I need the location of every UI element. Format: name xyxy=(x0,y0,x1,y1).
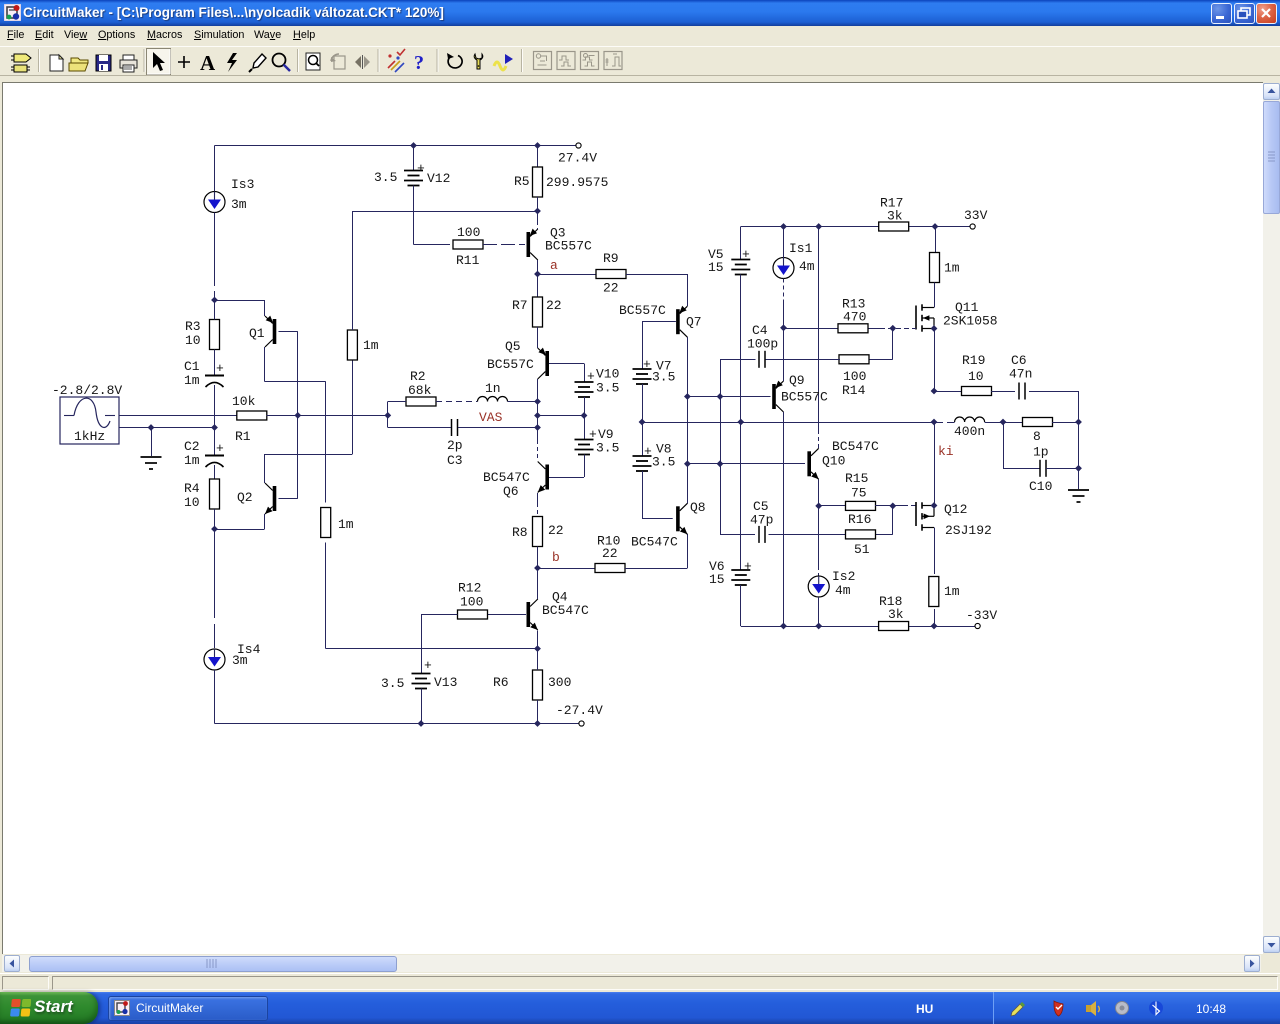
svg-text:3m: 3m xyxy=(231,197,247,212)
svg-text:R15: R15 xyxy=(845,471,868,486)
menu bar xyxy=(0,26,1280,46)
wire C5 riser xyxy=(720,397,722,535)
wire Q11 source down xyxy=(934,329,936,392)
svg-text:1m: 1m xyxy=(944,261,960,276)
resistor R1 xyxy=(237,411,267,420)
svg-text:+: + xyxy=(643,357,651,372)
wire Q1 base xyxy=(279,331,298,333)
wire V9 to Q6 base xyxy=(584,455,586,478)
capacitor C2 xyxy=(205,455,224,457)
toolbar icon: waveforms run xyxy=(494,54,513,70)
wire R15 right xyxy=(875,505,893,507)
current source Is4 xyxy=(204,649,225,670)
capacitor C3 xyxy=(451,419,453,436)
toolbar icon: zoom xyxy=(273,54,291,72)
wire C3 left xyxy=(387,415,389,427)
node Is3/R3/Q1 junction xyxy=(211,297,218,304)
resistor R15 xyxy=(846,501,876,510)
wire 1m to V12- rail xyxy=(352,211,354,330)
wire V6 to bottom rail xyxy=(740,585,742,626)
wire Q2 collector xyxy=(264,454,266,483)
wire R7 to Q5 emitter xyxy=(537,327,539,348)
svg-text:22: 22 xyxy=(603,281,619,296)
svg-text:R8: R8 xyxy=(512,525,528,540)
node Q4 emitter/R6 xyxy=(534,645,541,652)
resistor R7 xyxy=(537,274,539,297)
svg-text:10: 10 xyxy=(185,333,201,348)
taskbar xyxy=(0,992,1280,1024)
toolbar icon: save floppy xyxy=(96,55,111,71)
wire source to ground net xyxy=(119,427,215,429)
svg-text:1m: 1m xyxy=(363,338,379,353)
wire gate Q12 xyxy=(893,505,903,507)
svg-text:BC557C: BC557C xyxy=(781,390,828,405)
transistor Q6 xyxy=(545,465,549,490)
wire V10 to VAS node xyxy=(584,397,586,416)
wire 1m to Q4 emitter line xyxy=(325,543,327,649)
wire R2 to inductor xyxy=(436,401,478,403)
horizontal scrollbar xyxy=(2,955,1261,972)
svg-text:15: 15 xyxy=(709,572,725,587)
svg-text:BC547C: BC547C xyxy=(542,603,589,618)
svg-text:R12: R12 xyxy=(458,581,481,596)
svg-text:47n: 47n xyxy=(1009,367,1032,382)
wire Q4 emitter xyxy=(537,631,539,649)
wire C1 to C2 node xyxy=(214,385,216,455)
svg-text:22: 22 xyxy=(548,523,564,538)
svg-text:75: 75 xyxy=(851,486,867,501)
battery V10 xyxy=(575,381,594,383)
node R6 bottom xyxy=(534,720,541,727)
svg-text:C1: C1 xyxy=(184,359,200,374)
wire Q12 drain to 1m xyxy=(934,528,936,575)
capacitor C5 xyxy=(758,526,760,543)
svg-text:-33V: -33V xyxy=(966,608,997,623)
minimize button xyxy=(1211,3,1232,24)
terminal -33V xyxy=(975,623,980,628)
toolbar icon: probe tool yellow xyxy=(474,54,483,69)
node R5 top xyxy=(534,142,541,149)
wire Q10 collector xyxy=(818,227,820,431)
wire C4 to R14 xyxy=(766,359,841,361)
svg-text:R19: R19 xyxy=(962,353,985,368)
svg-text:C2: C2 xyxy=(184,439,200,454)
wire C3 right xyxy=(458,427,538,429)
wire bottom left rail xyxy=(214,670,216,724)
terminal 27.4V xyxy=(576,143,581,148)
svg-text:100: 100 xyxy=(457,225,480,240)
wire inductor to node xyxy=(508,401,538,403)
window title text xyxy=(23,5,444,20)
svg-text:10: 10 xyxy=(968,369,984,384)
svg-text:V10: V10 xyxy=(596,367,619,382)
battery V12 xyxy=(413,146,415,171)
ground symbol xyxy=(141,456,162,458)
svg-text:Q9: Q9 xyxy=(789,373,805,388)
svg-text:3.5: 3.5 xyxy=(381,676,404,691)
svg-text:+: + xyxy=(744,559,752,574)
toolbar icon: lightning xyxy=(227,53,237,72)
wire Q3 collector to node a xyxy=(537,260,539,274)
wire Q10 base line xyxy=(687,463,805,465)
current source Is2 xyxy=(808,576,829,597)
wire 1m to rail xyxy=(934,609,936,626)
svg-text:R4: R4 xyxy=(184,481,200,496)
svg-text:1n: 1n xyxy=(485,381,501,396)
wire +33V rail xyxy=(741,226,970,228)
wire R8 to node b xyxy=(537,547,539,569)
svg-text:R5: R5 xyxy=(514,174,530,189)
wire R12 to V13 xyxy=(421,614,458,616)
wire Q1 emitter xyxy=(215,300,265,302)
app icon xyxy=(4,4,21,21)
svg-text:1m: 1m xyxy=(184,453,200,468)
wire Q2 base xyxy=(279,498,298,500)
wire 8 ohm right xyxy=(1052,422,1079,424)
node V6 top xyxy=(737,419,744,426)
resistor 8 ohm load xyxy=(1023,418,1053,427)
toolbar icon: autoroute colored xyxy=(388,49,405,72)
svg-text:Q10: Q10 xyxy=(822,454,845,469)
svg-text:3k: 3k xyxy=(888,607,904,622)
resistor R3 xyxy=(210,320,220,350)
transistor Q9 xyxy=(772,384,776,409)
svg-text:22: 22 xyxy=(546,298,562,313)
wire Q10 emitter xyxy=(818,480,820,506)
svg-text:2SK1058: 2SK1058 xyxy=(943,314,998,329)
wire R15 left xyxy=(819,505,846,507)
vertical scrollbar xyxy=(1263,83,1280,953)
transistor Q4 xyxy=(527,602,531,627)
restore button xyxy=(1234,3,1255,24)
wire R10 to Q8 emitter xyxy=(625,568,687,570)
close button xyxy=(1256,3,1277,24)
wire Is3 to node xyxy=(214,213,216,287)
svg-text:BC547C: BC547C xyxy=(832,439,879,454)
node C4 riser/Q9 base xyxy=(717,393,724,400)
wire Is2 to rail xyxy=(818,597,820,626)
svg-text:R9: R9 xyxy=(603,251,619,266)
svg-text:b: b xyxy=(552,550,560,565)
svg-text:-27.4V: -27.4V xyxy=(556,703,603,718)
transistor Q1 xyxy=(273,319,277,344)
wire C10 right xyxy=(1046,468,1079,470)
svg-text:3k: 3k xyxy=(887,209,903,224)
wire 1m drain resistor top xyxy=(935,227,937,253)
svg-text:22: 22 xyxy=(602,546,618,561)
toolbar xyxy=(0,46,1280,75)
wire C4 left riser xyxy=(720,359,756,361)
svg-text:100: 100 xyxy=(460,595,483,610)
wire R5 to rail node xyxy=(537,197,539,211)
ground symbol right xyxy=(1068,489,1089,491)
wire Q7 collector xyxy=(687,337,689,504)
wire V8 to Q8 base xyxy=(642,471,644,519)
capacitor C6 xyxy=(1018,383,1020,400)
battery V9 xyxy=(584,416,586,440)
svg-text:+: + xyxy=(742,247,750,262)
wire ki column xyxy=(934,422,936,506)
node Q10 collector top xyxy=(815,223,822,230)
resistor 1m (Q1 collector load) xyxy=(321,508,331,538)
node Q10 base/C5 riser xyxy=(717,460,724,467)
wire V5 to 422 rail xyxy=(740,275,742,423)
terminal 33V xyxy=(970,224,975,229)
svg-text:a: a xyxy=(550,258,558,273)
node R15/R16/gate Q12 xyxy=(889,503,896,510)
wire R6 to rail xyxy=(537,649,539,670)
node Q11 source xyxy=(931,325,938,332)
node output corner xyxy=(1075,419,1082,426)
toolbar pressed arrow-tool button xyxy=(147,49,171,75)
svg-text:4m: 4m xyxy=(835,583,851,598)
wire Is4 top xyxy=(214,529,216,618)
node ki rail xyxy=(931,419,938,426)
svg-text:-2.8/2.8V: -2.8/2.8V xyxy=(52,383,122,398)
svg-text:BC547C: BC547C xyxy=(631,535,678,550)
wire R3 to C1 xyxy=(214,300,216,320)
wire Q4 base to R12 xyxy=(488,614,527,616)
svg-text:Is2: Is2 xyxy=(832,569,855,584)
node 1n/Q5 collector xyxy=(534,398,541,405)
svg-text:BC557C: BC557C xyxy=(487,357,534,372)
node ground tee xyxy=(148,424,155,431)
wire R9 to Q7 xyxy=(626,274,687,276)
transistor Q8 xyxy=(676,506,680,531)
svg-text:Q6: Q6 xyxy=(503,484,519,499)
wire Is1 stubs xyxy=(783,227,785,258)
svg-text:R7: R7 xyxy=(512,298,528,313)
node C3/Q6 xyxy=(534,424,541,431)
resistor R13 xyxy=(838,324,868,333)
node R13/R14/gate xyxy=(889,325,896,332)
node V7/V8 xyxy=(639,419,646,426)
node Is1/R13 xyxy=(780,324,787,331)
node Is2 rail xyxy=(815,623,822,630)
svg-text:10k: 10k xyxy=(232,394,256,409)
svg-text:ki: ki xyxy=(938,444,954,459)
svg-text:R6: R6 xyxy=(493,675,509,690)
resistor R12 xyxy=(458,610,488,619)
svg-text:15: 15 xyxy=(708,260,724,275)
wire V12 to R11 xyxy=(413,186,415,245)
wire Q5 collector xyxy=(537,379,539,402)
svg-text:Q7: Q7 xyxy=(686,315,702,330)
wire Q9 base line xyxy=(687,396,770,398)
svg-text:27.4V: 27.4V xyxy=(558,151,597,166)
wire Q5 base to V10 xyxy=(549,363,584,365)
wire R19 to C6 xyxy=(991,391,1015,393)
wire Is2 stubs xyxy=(818,506,820,566)
svg-text:100: 100 xyxy=(843,369,866,384)
svg-text:Q12: Q12 xyxy=(944,502,967,517)
svg-text:Q2: Q2 xyxy=(237,490,253,505)
wire Q7 base to V7 xyxy=(642,321,676,323)
transistor Q5 xyxy=(545,351,549,376)
resistor 1m (Q2 collector load) xyxy=(347,330,357,360)
resistor 1m (Q12 drain) xyxy=(929,577,939,607)
svg-text:V13: V13 xyxy=(434,675,457,690)
svg-text:R14: R14 xyxy=(842,383,866,398)
wire R13 line to gate xyxy=(784,328,839,330)
wire R16 right riser xyxy=(892,506,894,535)
toolbar icon: find part xyxy=(306,53,320,70)
wire R4 to node xyxy=(214,509,216,529)
svg-text:1kHz: 1kHz xyxy=(74,429,105,444)
wire -33V rail xyxy=(741,626,879,628)
svg-text:3.5: 3.5 xyxy=(596,441,619,456)
resistor R14 xyxy=(839,355,869,364)
node Q10 base/Q7Q8 collectors xyxy=(684,460,691,467)
terminal -27.4V xyxy=(579,721,584,726)
resistor 1m (Q11 drain) xyxy=(930,253,940,283)
wire top +27.4V rail xyxy=(215,145,578,147)
inductor 1n xyxy=(478,397,508,402)
wire 400n right xyxy=(985,422,1023,424)
battery V8 xyxy=(642,422,644,456)
wire mid 422 rail xyxy=(642,422,934,424)
wire node b to R10 xyxy=(538,568,596,570)
toolbar icon: rotate page (disabled) xyxy=(331,54,345,69)
transistor Q2 xyxy=(273,486,277,511)
resistor R11 xyxy=(453,240,483,249)
svg-text:Q1: Q1 xyxy=(249,326,265,341)
svg-text:VAS: VAS xyxy=(479,410,503,425)
svg-text:R1: R1 xyxy=(235,429,251,444)
wire V13 to bottom rail xyxy=(421,689,423,724)
svg-text:+: + xyxy=(216,361,224,376)
wire R11 to Q3 base xyxy=(483,244,525,246)
resistor R17 xyxy=(879,222,909,231)
toolbar icon: probe xyxy=(249,54,266,72)
wire Q3 emitter xyxy=(537,211,539,222)
start button xyxy=(0,992,98,1024)
svg-text:R11: R11 xyxy=(456,253,480,268)
toolbar icon: open folder xyxy=(69,58,88,71)
svg-text:C10: C10 xyxy=(1029,479,1052,494)
wire Q1 collector xyxy=(264,347,266,382)
current source Is3 xyxy=(204,192,225,213)
svg-text:R3: R3 xyxy=(185,319,201,334)
svg-text:1m: 1m xyxy=(184,373,200,388)
node a xyxy=(534,271,541,278)
node b xyxy=(534,565,541,572)
capacitor C1 xyxy=(205,375,224,377)
battery V13 xyxy=(412,673,431,675)
toolbar bottom divider xyxy=(0,75,1280,82)
node C10 left tee xyxy=(1000,419,1007,426)
node Q12 source xyxy=(931,502,938,509)
node R2/C3 tee xyxy=(384,412,391,419)
wire Q6 emitter to R8 xyxy=(537,493,539,503)
source V1 signal generator xyxy=(60,397,119,444)
svg-text:33V: 33V xyxy=(964,208,988,223)
wire ki node to 400n xyxy=(934,422,955,424)
svg-text:+: + xyxy=(424,658,432,673)
toolbar waveform buttons (disabled) xyxy=(534,52,552,70)
node Q1/Q2 base tee xyxy=(294,412,301,419)
resistor R6 xyxy=(533,670,543,700)
inductor 400n xyxy=(955,417,985,422)
wire R14 right riser xyxy=(892,328,894,359)
resistor R5 xyxy=(537,146,539,168)
svg-text:Is3: Is3 xyxy=(231,177,254,192)
node C1/C2 xyxy=(211,424,218,431)
node Is1 top xyxy=(780,223,787,230)
node C10/ground xyxy=(1075,465,1082,472)
wire Q2 emitter xyxy=(215,529,265,531)
resistor R10 xyxy=(595,564,625,573)
capacitor C10 xyxy=(1039,460,1041,477)
battery V7 xyxy=(633,368,652,370)
wire C6 to corner xyxy=(1029,391,1079,393)
resistor R9 xyxy=(596,270,626,279)
node Q9 collector rail xyxy=(780,623,787,630)
node R5/V12 rail/Q3 xyxy=(534,208,541,215)
svg-text:10: 10 xyxy=(184,495,200,510)
capacitor C4 xyxy=(758,351,760,368)
toolbar icon: new file xyxy=(50,55,63,71)
resistor R4 xyxy=(210,479,220,509)
resistor R18 xyxy=(879,622,909,631)
wire VAS link xyxy=(537,402,539,428)
node R4/Q2/Is4 xyxy=(211,526,218,533)
battery V5 xyxy=(731,259,750,261)
wire R19 line xyxy=(934,391,962,393)
toolbar icon: expand arrows xyxy=(355,55,370,69)
node VAS mid xyxy=(534,412,541,419)
wire R1 to R2/C3 node xyxy=(267,415,388,417)
svg-text:Is1: Is1 xyxy=(789,241,813,256)
svg-text:3m: 3m xyxy=(232,653,248,668)
wire 1m to Q11 drain xyxy=(934,283,936,308)
svg-text:4m: 4m xyxy=(799,259,815,274)
resistor R8 xyxy=(533,517,543,547)
svg-text:+: + xyxy=(587,369,595,384)
node Q7 collector/Q9 base xyxy=(684,393,691,400)
status bar xyxy=(0,973,1280,992)
svg-text:R2: R2 xyxy=(410,369,426,384)
svg-text:3.5: 3.5 xyxy=(596,381,619,396)
svg-text:BC557C: BC557C xyxy=(619,303,666,318)
toolbar icon: chip browser xyxy=(11,54,31,72)
svg-text:2p: 2p xyxy=(447,438,463,453)
svg-text:51: 51 xyxy=(854,542,870,557)
wire C10 left riser xyxy=(1003,422,1005,468)
svg-text:400n: 400n xyxy=(954,424,985,439)
wire node a to R9 xyxy=(538,274,597,276)
transistor Q10 xyxy=(807,451,811,476)
system tray xyxy=(993,992,1280,1024)
svg-text:47p: 47p xyxy=(750,513,773,528)
toolbar icon: plus xyxy=(178,56,190,68)
resistor R16 xyxy=(846,530,876,539)
wire C5 line to R16 xyxy=(720,534,755,536)
resistor R2 xyxy=(406,397,436,406)
svg-text:V12: V12 xyxy=(427,171,450,186)
svg-text:1m: 1m xyxy=(944,584,960,599)
svg-text:3.5: 3.5 xyxy=(374,170,397,185)
svg-text:3.5: 3.5 xyxy=(652,370,675,385)
node R17/1m xyxy=(932,223,939,230)
svg-text:300: 300 xyxy=(548,675,571,690)
svg-text:1p: 1p xyxy=(1033,445,1049,460)
svg-text:BC547C: BC547C xyxy=(483,470,530,485)
transistor Q7 xyxy=(676,309,680,334)
wire C2 to R4 xyxy=(214,465,216,479)
toolbar icon: print xyxy=(120,55,137,72)
node Q10 emitter/R15 xyxy=(815,503,822,510)
